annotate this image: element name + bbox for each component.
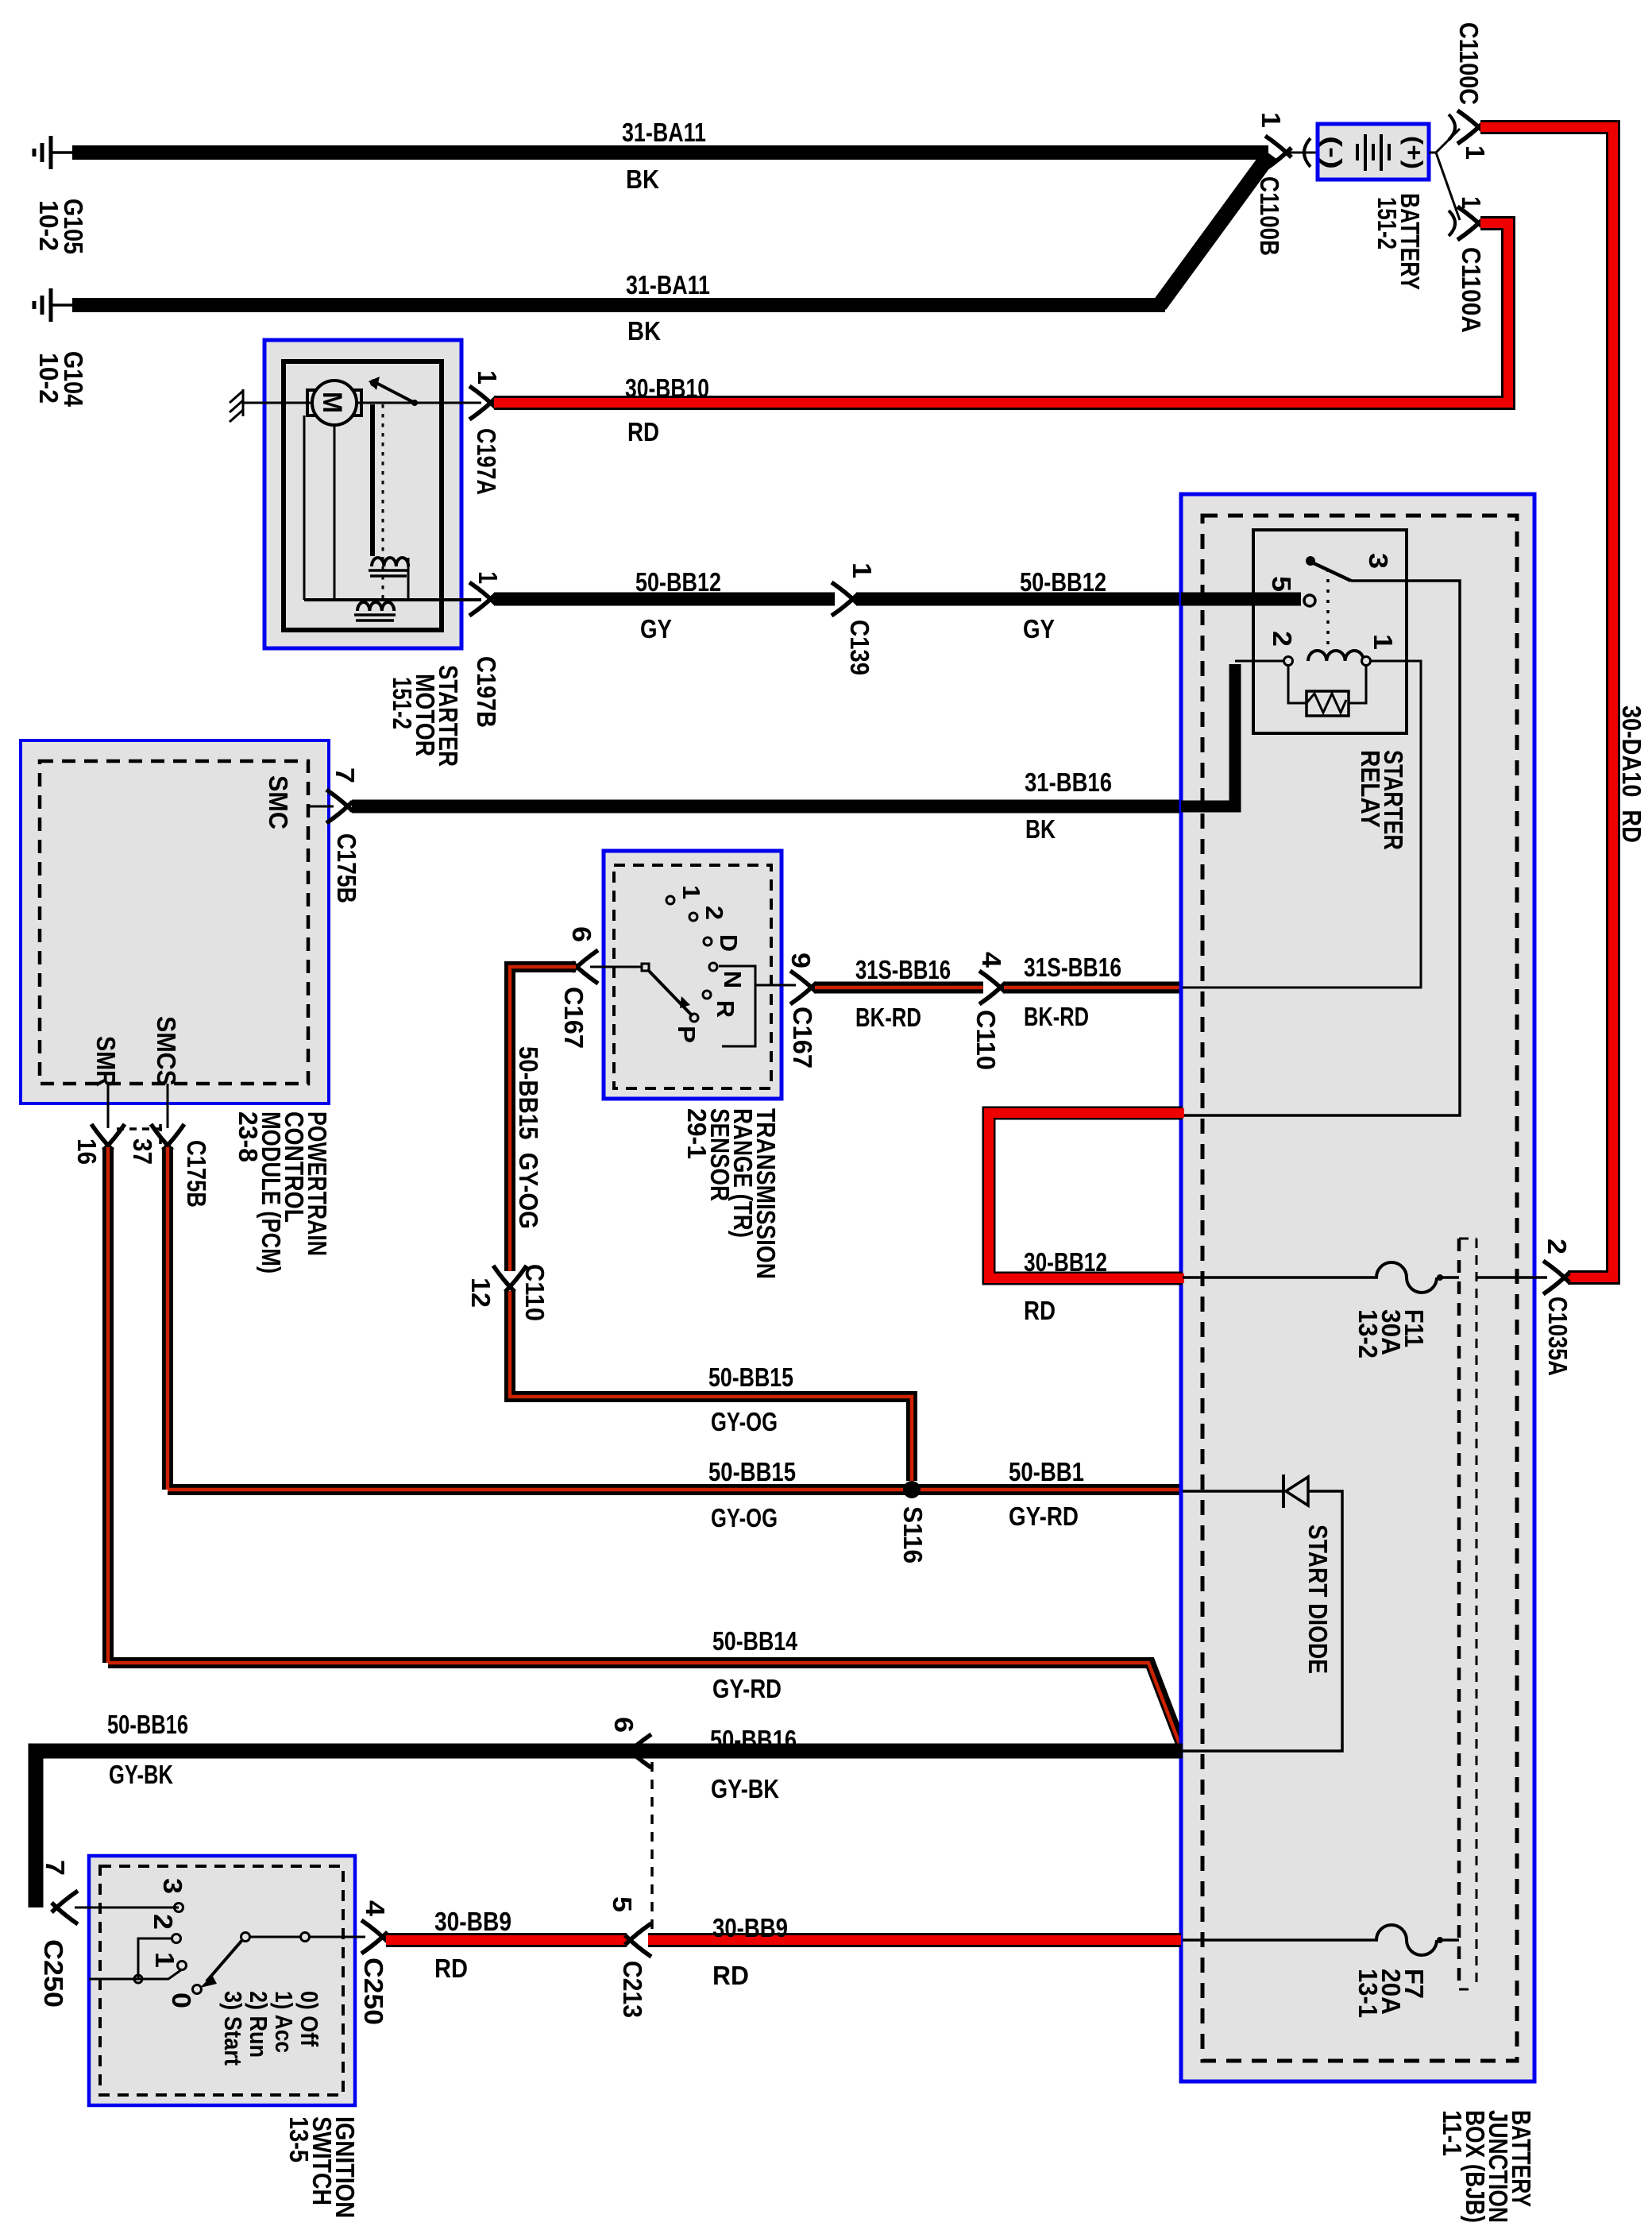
starter motor box (264, 340, 461, 648)
wire hold-in coil to main (407, 558, 410, 600)
svg-text:50-BB12: 50-BB12 (635, 568, 721, 597)
connector C250 pin 7 arrow (52, 1891, 78, 1924)
wire 30-BB10 RD (494, 223, 1508, 403)
svg-text:50-BB14: 50-BB14 (712, 1627, 797, 1656)
svg-text:29-1: 29-1 (681, 1108, 711, 1159)
svg-text:3) Start: 3) Start (219, 1991, 247, 2066)
label STARTER RELAY (1355, 750, 1407, 850)
svg-text:GY-OG: GY-OG (711, 1504, 778, 1533)
svg-text:0) Off: 0) Off (295, 1991, 323, 2047)
wire battery positive split upper lead (1429, 129, 1460, 153)
svg-text:C139: C139 (844, 620, 874, 675)
ignition switch dashed border (100, 1866, 343, 2095)
wire 50-BB16 GY-BK (36, 1751, 1183, 1907)
svg-text:50-BB16: 50-BB16 (710, 1726, 797, 1755)
ground G105 (34, 136, 72, 169)
TR position contact R (703, 991, 711, 999)
wire 31S-BB16 BK-RD segment 2 (1004, 982, 1181, 994)
svg-text:1: 1 (1460, 145, 1489, 160)
wire 30-BB9 RD segment 1 (386, 1933, 627, 1947)
svg-text:C250: C250 (358, 1958, 388, 2025)
wire motor to bottom (304, 415, 334, 600)
TR position contact 1 (666, 896, 674, 904)
svg-text:30-DA10 RD: 30-DA10 RD (1616, 705, 1646, 843)
wire pivot to hold-in coil (370, 404, 375, 556)
BJB fuse bus dashed channel (1459, 1239, 1476, 1989)
chassis ground at starter motor (230, 389, 243, 422)
starter motor inner case (284, 361, 442, 630)
svg-text:SMC: SMC (263, 775, 292, 829)
wire F11 to C1035A (1476, 1276, 1547, 1279)
connector C175B dashed bracket (117, 1124, 162, 1146)
svg-text:2: 2 (1267, 631, 1296, 647)
wire TR output to pin 9 (755, 984, 796, 987)
wire C250 pin7 into ignition switch (75, 1907, 179, 1909)
svg-text:C213: C213 (617, 1961, 647, 2018)
svg-text:7: 7 (40, 1860, 69, 1876)
svg-text:1: 1 (847, 562, 876, 578)
svg-text:M: M (317, 392, 347, 413)
wire 50-BB12 inside BJB to relay pin 5 (1181, 593, 1301, 606)
svg-text:2: 2 (148, 1914, 177, 1930)
wire 31-BA11 BK from G105 to C1100B (72, 145, 1268, 160)
svg-text:1: 1 (677, 885, 705, 899)
svg-text:GY-BK: GY-BK (109, 1761, 173, 1790)
svg-text:C167: C167 (558, 987, 588, 1049)
label BATTERY 151-2 (1372, 193, 1424, 290)
transmission range sensor box (604, 851, 782, 1099)
svg-text:1: 1 (473, 571, 502, 584)
svg-text:50-BB1: 50-BB1 (1009, 1458, 1084, 1487)
label POWERTRAIN CONTROL MODULE (PCM) 23-8 (233, 1111, 331, 1274)
BJB dashed border (1202, 516, 1517, 2061)
svg-text:5: 5 (1266, 576, 1295, 592)
svg-text:30-BB10: 30-BB10 (625, 374, 709, 404)
label F7 20A 13-1 (1353, 1969, 1428, 2018)
ignition rotor output contact (301, 1933, 310, 1942)
ignition contact 2 (172, 1934, 181, 1943)
connector C1100A arrow (1457, 207, 1484, 240)
svg-text:3: 3 (157, 1878, 187, 1894)
svg-text:SMR: SMR (91, 1036, 120, 1087)
svg-text:1: 1 (472, 370, 501, 385)
battery junction box (1181, 494, 1534, 2081)
hold-in coil (369, 558, 408, 576)
connector pin 16 arrow (91, 1124, 125, 1150)
svg-text:1: 1 (1256, 112, 1285, 128)
svg-text:2) Run: 2) Run (245, 1991, 272, 2058)
svg-text:5: 5 (607, 1896, 636, 1912)
wire SMR lead (107, 1084, 110, 1128)
battery 151-2 (1318, 124, 1429, 180)
wire 50-BB14 GY-RD from SMR (108, 1147, 1183, 1748)
svg-text:1) Acc: 1) Acc (270, 1991, 298, 2053)
label G104 10-2 (33, 351, 87, 407)
TR sensor dashed border (614, 865, 771, 1088)
wire 30-BB12 RD loop (989, 1113, 1184, 1278)
label STARTER MOTOR 151-2 (387, 665, 462, 767)
svg-text:BK-RD: BK-RD (855, 1003, 921, 1033)
wire 31S-BB16 BK-RD segment 1 (815, 982, 983, 994)
connector C1100C arrow (1457, 110, 1484, 144)
svg-text:C250: C250 (38, 1939, 68, 2008)
label IGNITION SWITCH 13-5 (284, 2116, 359, 2218)
wire 30-BB9 RD segment 2 (648, 1933, 1181, 1947)
svg-text:31-BA11: 31-BA11 (626, 271, 710, 300)
svg-text:1: 1 (1456, 196, 1485, 209)
svg-text:SMCS: SMCS (151, 1016, 180, 1086)
svg-text:2: 2 (701, 906, 728, 920)
wire 31-BA11 BK from G104 (second segment) (72, 298, 1165, 312)
svg-text:0: 0 (166, 1992, 195, 2008)
wire diagonal joining G104 wire to C1100B junction (1160, 154, 1270, 305)
svg-text:R: R (712, 1000, 739, 1018)
label BATTERY JUNCTION BOX (BJB) 11-1 (1437, 2110, 1535, 2223)
connector C197B arrow (469, 582, 496, 616)
start diode (1183, 1475, 1342, 1751)
wire 31-BB16 inside BJB to relay pin 2 (1181, 661, 1283, 806)
svg-text:RD: RD (712, 1962, 749, 1991)
svg-text:RD: RD (1024, 1297, 1056, 1326)
svg-text:151-2: 151-2 (1372, 197, 1401, 249)
dashed actuation line in motor (382, 404, 384, 612)
connector pin 37 arrow (151, 1124, 184, 1150)
wire SMC lead (308, 806, 334, 808)
relay actuation dotted line (1326, 569, 1330, 645)
svg-text:BK: BK (626, 165, 659, 195)
wire to fuse F7 (1183, 1938, 1378, 1942)
svg-text:50-BB16: 50-BB16 (107, 1710, 188, 1740)
svg-text:13-5: 13-5 (284, 2116, 313, 2162)
TR position contact D (704, 937, 712, 945)
svg-text:9: 9 (785, 953, 815, 968)
wire bottom run in motor (304, 598, 481, 601)
svg-text:RD: RD (434, 1954, 468, 1984)
powertrain control module box (21, 740, 329, 1103)
ignition contact 3 (175, 1904, 183, 1912)
ground G104 (34, 288, 72, 322)
connector C139 arrow (832, 582, 858, 616)
label G105 10-2 (33, 199, 87, 254)
relay switch arm (1312, 562, 1351, 581)
ignition branch contact circle (134, 1975, 142, 1983)
connector C175B pin 7 arrow (326, 790, 353, 823)
wire rotor to pin 4 (249, 1936, 365, 1938)
TR selector gate bracket (719, 966, 755, 1046)
TR switch arm (642, 964, 693, 1016)
relay pin 5 contact (1304, 595, 1315, 606)
svg-text:START DIODE: START DIODE (1303, 1525, 1332, 1674)
svg-text:GY-OG: GY-OG (711, 1408, 778, 1437)
fuse F11 (1376, 1262, 1459, 1293)
svg-text:BK: BK (1025, 815, 1056, 845)
wire to fuse F11 (1183, 1276, 1378, 1279)
svg-text:GY: GY (1023, 615, 1055, 644)
connector C110 pin 12 arrow (493, 1266, 527, 1292)
svg-text:D: D (715, 934, 743, 952)
svg-text:RD: RD (627, 418, 659, 447)
ignition contact 0 (193, 1985, 202, 1994)
svg-text:GY: GY (640, 615, 672, 644)
TR position contact N (709, 963, 717, 971)
label 0) Off 1) Acc 2) Run 3) Start (219, 1991, 323, 2066)
connector bracket at battery negative (1304, 138, 1310, 167)
svg-text:12: 12 (465, 1277, 495, 1308)
TR position contact P (690, 1014, 698, 1022)
label TRANSMISSION RANGE (TR) SENSOR 29-1 (681, 1108, 780, 1279)
svg-text:BK: BK (627, 317, 661, 346)
label F11 30A 13-2 (1353, 1309, 1428, 1359)
connector C1100B arrow (1265, 136, 1291, 169)
svg-text:S116: S116 (897, 1506, 927, 1563)
svg-text:C1100A: C1100A (1456, 247, 1485, 333)
svg-text:C110: C110 (519, 1264, 549, 1321)
connector C1035A pin 2 arrow (1543, 1261, 1569, 1294)
connector C213 dashed link (650, 1762, 654, 1929)
ignition wire contact2 branch (89, 1938, 182, 1979)
svg-text:10-2: 10-2 (33, 353, 63, 404)
relay economizer resistor (1288, 666, 1366, 716)
wire TR pivot to pin 6 (590, 966, 642, 968)
svg-text:N: N (719, 971, 747, 988)
motor brush rectangle (307, 390, 361, 415)
wire 50-BB1 to start diode (1183, 1490, 1282, 1493)
fuse F7 (1376, 1925, 1459, 1955)
svg-text:30-BB9: 30-BB9 (434, 1907, 511, 1937)
svg-text:11-1: 11-1 (1437, 2110, 1466, 2156)
svg-text:(+): (+) (1400, 136, 1428, 169)
svg-text:C175B: C175B (181, 1140, 210, 1208)
wire 50-BB15 GY-OG from SMCS (168, 1147, 1181, 1490)
svg-text:6: 6 (608, 1717, 638, 1733)
svg-text:C1100C: C1100C (1453, 22, 1483, 105)
connector bracket C1100C (1449, 114, 1455, 140)
svg-text:23-8: 23-8 (233, 1111, 262, 1162)
svg-text:30-BB9: 30-BB9 (712, 1914, 788, 1943)
svg-text:C110: C110 (971, 1010, 1000, 1070)
wire 30-DA10 RD from C1100C down right side (1480, 127, 1613, 1277)
wire 50-BB12 GY segment 2 (856, 593, 1183, 606)
svg-text:30-BB12: 30-BB12 (1024, 1248, 1107, 1277)
connector C213 pin 5 arrow (625, 1923, 651, 1957)
svg-text:RELAY: RELAY (1355, 750, 1384, 828)
wire motor supply (243, 402, 481, 404)
connector bracket C1100A (1449, 211, 1455, 236)
svg-text:31S-BB16: 31S-BB16 (855, 956, 951, 985)
svg-text:50-BB15: 50-BB15 (708, 1458, 796, 1487)
wire battery negative lead (1288, 152, 1318, 154)
pull-in coil (354, 602, 396, 620)
connector C110 pin 4 arrow (979, 971, 1005, 1004)
relay coil (1284, 651, 1371, 666)
svg-text:C167: C167 (787, 1007, 816, 1069)
wire battery positive split lower lead (1429, 153, 1460, 220)
svg-text:50-BB15: 50-BB15 (708, 1363, 793, 1393)
svg-text:2: 2 (1542, 1239, 1571, 1254)
svg-text:GY-BK: GY-BK (711, 1775, 779, 1804)
wire 50-BB15 GY-OG from C167 pin 6 to C110 pin 12 and S116 (510, 967, 912, 1481)
connector C167 pin 9 arrow (790, 971, 816, 1004)
connector C167 pin 6 arrow (572, 950, 598, 984)
svg-text:1: 1 (149, 1952, 179, 1968)
svg-text:10-2: 10-2 (33, 200, 63, 251)
wire relay output to 30-BB12 (1183, 581, 1460, 1115)
motor M1 (312, 381, 357, 425)
wire 31-BB16 BK (352, 800, 1183, 814)
svg-text:1: 1 (1368, 634, 1397, 650)
junction S116 (903, 1481, 921, 1498)
svg-text:(-): (-) (1319, 136, 1347, 169)
svg-text:GY-RD: GY-RD (712, 1675, 782, 1704)
ignition switch box (89, 1856, 355, 2105)
svg-text:P: P (673, 1026, 701, 1043)
svg-text:50-BB15 GY-OG: 50-BB15 GY-OG (513, 1046, 542, 1229)
wire 50-BB12 GY segment 1 (494, 593, 835, 606)
relay pin 3 contact (1306, 556, 1315, 566)
svg-text:C1100B: C1100B (1254, 176, 1283, 256)
starter relay box (1253, 530, 1407, 733)
svg-text:GY-RD: GY-RD (1009, 1502, 1079, 1532)
svg-text:13-2: 13-2 (1353, 1309, 1382, 1359)
svg-text:16: 16 (71, 1138, 101, 1165)
svg-text:C175B: C175B (331, 833, 361, 903)
svg-text:13-1: 13-1 (1353, 1969, 1382, 2018)
svg-text:BK-RD: BK-RD (1024, 1003, 1089, 1032)
svg-text:6: 6 (566, 926, 596, 942)
svg-text:50-BB12: 50-BB12 (1020, 568, 1106, 597)
svg-text:C197B: C197B (471, 656, 500, 728)
connector C197A arrow (469, 386, 496, 419)
svg-text:3: 3 (1363, 553, 1392, 569)
connector C250 pin 4 arrow (361, 1920, 388, 1954)
wire relay pin 1 to 31S-BB16 (1183, 661, 1421, 988)
svg-text:4: 4 (976, 952, 1005, 968)
svg-text:7: 7 (330, 767, 359, 783)
PCM dashed border (40, 761, 308, 1084)
wire SMCS lead (167, 1084, 169, 1128)
svg-text:31S-BB16: 31S-BB16 (1024, 953, 1121, 983)
svg-text:C1035A: C1035A (1542, 1297, 1572, 1376)
ignition contact 1 (178, 1962, 187, 1970)
svg-text:37: 37 (127, 1138, 156, 1165)
solenoid switch arm (369, 377, 418, 406)
TR position contact 2 (689, 913, 697, 921)
svg-text:31-BB16: 31-BB16 (1025, 768, 1112, 798)
svg-text:C197A: C197A (471, 428, 500, 495)
ignition switch rotor arm (200, 1933, 250, 1989)
connector C213 pin 6 arrow (625, 1734, 651, 1768)
svg-text:31-BA11: 31-BA11 (622, 118, 706, 148)
svg-text:4: 4 (360, 1900, 389, 1916)
svg-text:151-2: 151-2 (387, 677, 416, 729)
